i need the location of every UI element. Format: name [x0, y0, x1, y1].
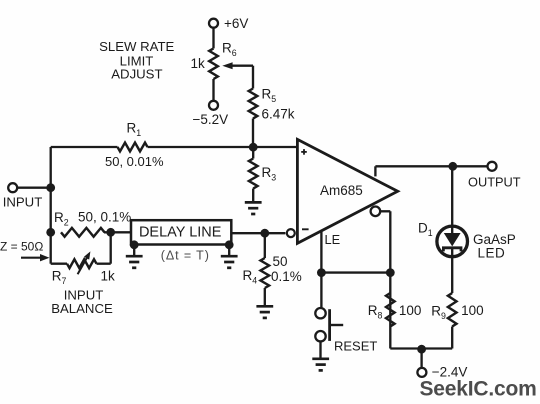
svg-text:R5: R5: [262, 87, 277, 105]
svg-text:50, 0.1%: 50, 0.1%: [78, 210, 131, 225]
svg-text:R8: R8: [368, 303, 383, 321]
svg-text:OUTPUT: OUTPUT: [468, 174, 521, 189]
svg-text:SLEW RATE: SLEW RATE: [99, 39, 174, 54]
svg-text:100: 100: [461, 303, 484, 318]
svg-text:R6: R6: [222, 41, 237, 59]
svg-text:D1: D1: [418, 221, 433, 239]
svg-text:R7: R7: [52, 269, 67, 287]
svg-text:6.47k: 6.47k: [262, 107, 295, 122]
svg-text:0.1%: 0.1%: [271, 269, 302, 284]
svg-text:R4: R4: [243, 268, 258, 286]
svg-text:100: 100: [399, 303, 422, 318]
svg-text:RESET: RESET: [334, 339, 377, 354]
svg-text:+6V: +6V: [224, 16, 248, 31]
svg-text:1k: 1k: [101, 269, 116, 284]
svg-text:(Δt = T): (Δt = T): [161, 249, 210, 263]
svg-text:R2: R2: [54, 210, 69, 228]
svg-text:R1: R1: [127, 121, 142, 139]
svg-text:SeekIC.com: SeekIC.com: [420, 377, 537, 400]
svg-text:ADJUST: ADJUST: [111, 67, 162, 82]
svg-text:BALANCE: BALANCE: [51, 301, 113, 316]
svg-text:1k: 1k: [191, 56, 206, 71]
svg-text:50: 50: [273, 254, 288, 269]
svg-text:R3: R3: [262, 165, 277, 183]
svg-text:INPUT: INPUT: [3, 195, 43, 210]
svg-text:LE: LE: [325, 232, 341, 247]
svg-text:DELAY LINE: DELAY LINE: [139, 224, 222, 240]
svg-text:−5.2V: −5.2V: [193, 112, 229, 127]
svg-text:R9: R9: [431, 304, 446, 322]
svg-text:50, 0.01%: 50, 0.01%: [105, 154, 164, 169]
svg-text:Am685: Am685: [320, 183, 363, 198]
svg-text:Z = 50Ω: Z = 50Ω: [0, 240, 43, 254]
svg-text:LED: LED: [478, 246, 506, 261]
